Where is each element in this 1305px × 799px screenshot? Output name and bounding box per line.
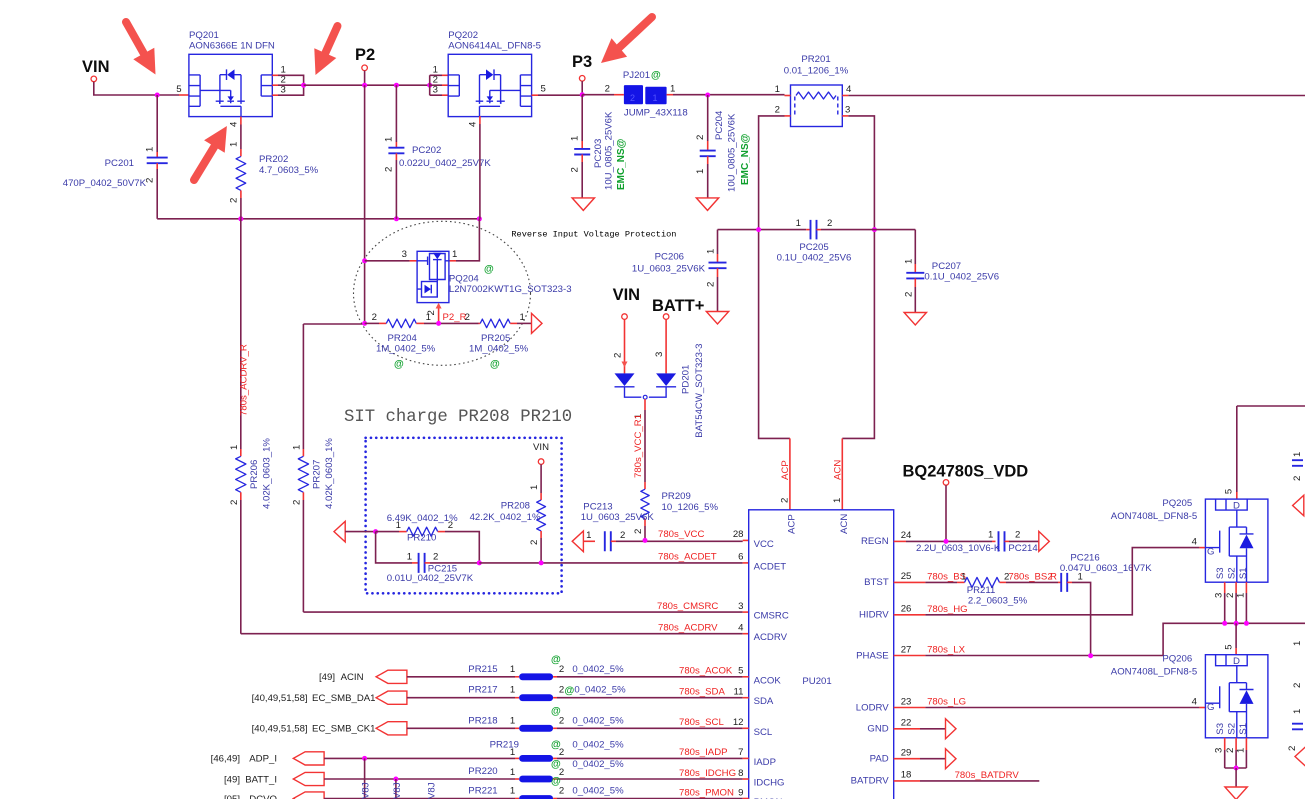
transistor PQ202 body [448, 54, 531, 116]
svg-text:2: 2 [145, 178, 156, 183]
svg-text:@: @ [551, 706, 561, 717]
svg-text:VIN: VIN [82, 58, 110, 76]
svg-text:1: 1 [1292, 452, 1303, 457]
svg-text:S1: S1 [1238, 567, 1249, 579]
svg-text:1M_0402_5%: 1M_0402_5% [469, 344, 529, 355]
svg-text:PC216: PC216 [1070, 553, 1099, 564]
svg-text:1: 1 [510, 747, 515, 758]
svg-text:[49]: [49] [224, 774, 240, 785]
svg-text:VIN: VIN [613, 286, 641, 304]
svg-text:4: 4 [846, 84, 852, 95]
svg-text:1: 1 [1235, 748, 1246, 753]
svg-text:2: 2 [620, 530, 625, 541]
svg-text:PC207: PC207 [932, 261, 961, 272]
wire BTST row [894, 581, 926, 583]
svg-text:2: 2 [633, 529, 644, 534]
svg-text:28: 28 [733, 529, 744, 540]
resistor PR205 [479, 322, 481, 324]
svg-text:SIT charge PR208 PR210: SIT charge PR208 PR210 [344, 408, 572, 427]
svg-text:PR206: PR206 [249, 460, 260, 489]
pin stubs PQ205 sources [1224, 582, 1226, 593]
node P2 terminal [362, 65, 368, 71]
resistor PR217 row [376, 691, 407, 704]
capacitor PC205 [811, 220, 817, 240]
svg-text:S2: S2 [1226, 723, 1237, 735]
junction PHASE PC216 [1088, 653, 1093, 658]
wire ACDRV_R vertical [240, 219, 242, 449]
svg-text:PC213: PC213 [583, 502, 612, 513]
ground arrow PAD pin [894, 758, 920, 760]
svg-text:2: 2 [827, 218, 832, 229]
svg-text:S2: S2 [1226, 567, 1237, 579]
svg-text:ACOK: ACOK [754, 675, 782, 686]
svg-text:IADP: IADP [754, 757, 776, 768]
pin stubs PQ206 sources [1224, 738, 1226, 750]
svg-text:D: D [1233, 656, 1240, 667]
wire HIDRV row [894, 614, 926, 616]
svg-text:VCC: VCC [754, 539, 774, 550]
junction BATT_I [393, 777, 398, 782]
svg-text:26: 26 [901, 604, 912, 615]
svg-text:780s_PMON: 780s_PMON [679, 787, 734, 798]
svg-text:2: 2 [559, 715, 564, 726]
svg-text:PR218: PR218 [468, 715, 497, 726]
svg-text:2: 2 [1292, 683, 1303, 688]
svg-text:PQ201: PQ201 [189, 30, 219, 41]
jumper PJ201 body [624, 85, 643, 104]
svg-text:PR210: PR210 [407, 533, 436, 544]
svg-text:REGN: REGN [861, 536, 889, 547]
offpage arrow REGN [1039, 531, 1050, 551]
svg-text:D: D [1233, 501, 1240, 512]
svg-text:22: 22 [901, 718, 912, 729]
annotation arrow 4 [619, 17, 652, 48]
svg-text:AON6414AL_DFN8-5: AON6414AL_DFN8-5 [448, 41, 541, 52]
svg-text:PR202: PR202 [259, 154, 288, 165]
svg-text:1: 1 [426, 312, 431, 323]
svg-text:4: 4 [1192, 697, 1198, 708]
svg-text:1: 1 [510, 685, 515, 696]
junction gate bus PR202 [238, 216, 243, 221]
svg-text:1: 1 [510, 664, 515, 675]
junction PR210 left [373, 529, 378, 534]
svg-text:1: 1 [291, 445, 302, 450]
svg-text:@: @ [551, 759, 561, 770]
svg-text:0.01_1206_1%: 0.01_1206_1% [784, 66, 849, 77]
svg-text:PR207: PR207 [311, 460, 322, 489]
svg-text:@: @ [551, 739, 561, 750]
svg-text:780s_CMSRC: 780s_CMSRC [657, 601, 718, 612]
svg-text:VIN: VIN [533, 442, 549, 453]
svg-text:5: 5 [176, 84, 181, 95]
resistor PR202 [240, 125, 242, 150]
junction sources b [1234, 621, 1239, 626]
svg-text:ACIN: ACIN [341, 672, 364, 683]
svg-text:780s_BS2: 780s_BS2 [1008, 571, 1052, 582]
svg-text:2: 2 [559, 786, 564, 797]
svg-text:1: 1 [695, 169, 706, 174]
svg-text:S1: S1 [1238, 723, 1249, 735]
capacitor PC213 [583, 540, 595, 542]
svg-text:[46,49]: [46,49] [211, 754, 240, 765]
svg-text:PC204: PC204 [714, 110, 725, 140]
wire arrow to PR210 [345, 531, 375, 533]
svg-text:LODRV: LODRV [856, 702, 889, 713]
svg-text:ACP: ACP [787, 514, 798, 534]
svg-text:4: 4 [1192, 537, 1198, 548]
wire net P2 segment [304, 84, 430, 86]
svg-text:BAT54CW_SOT323-3: BAT54CW_SOT323-3 [694, 343, 705, 437]
resistor PR210 [376, 531, 399, 533]
svg-text:4: 4 [738, 623, 744, 634]
svg-text:4: 4 [468, 121, 479, 127]
svg-text:6: 6 [738, 552, 743, 563]
junction ACN row [872, 227, 877, 232]
svg-text:10U_0805_25V6K: 10U_0805_25V6K [604, 111, 615, 190]
annotation arrow 1 [126, 22, 144, 54]
svg-text:PC202: PC202 [412, 145, 441, 156]
svg-text:0_0402_5%: 0_0402_5% [572, 739, 624, 750]
wire P3 to PJ201 [582, 94, 614, 96]
svg-text:780s_VCC: 780s_VCC [658, 529, 704, 540]
svg-text:2: 2 [384, 167, 395, 172]
svg-text:DCVO: DCVO [249, 794, 277, 799]
svg-text:@: @ [651, 70, 661, 81]
svg-text:6.49K_0402_1%: 6.49K_0402_1% [387, 513, 458, 524]
wire PQ204 pin1 [456, 219, 479, 261]
wire P2 vertical [364, 85, 366, 323]
capacitor PC216 [1058, 581, 1061, 583]
junction PQ201 outputs [301, 83, 306, 88]
svg-text:780s_LX: 780s_LX [927, 645, 965, 656]
svg-text:3: 3 [845, 105, 850, 116]
junction sources a [1222, 621, 1227, 626]
resistor PR220 row [293, 772, 324, 785]
svg-text:PQ206: PQ206 [1162, 654, 1192, 665]
svg-text:AON7408L_DFN8-5: AON7408L_DFN8-5 [1111, 667, 1197, 678]
input arrow PR210row [334, 521, 345, 542]
svg-text:5: 5 [738, 666, 743, 677]
dotted box [366, 438, 562, 594]
svg-text:2.2_0603_5%: 2.2_0603_5% [968, 596, 1028, 607]
svg-text:PAD: PAD [870, 754, 889, 765]
pin stub ACN [841, 438, 843, 509]
svg-text:PC203: PC203 [593, 139, 604, 168]
wire CMSRC row [303, 611, 742, 613]
svg-text:9: 9 [738, 787, 743, 798]
svg-text:29: 29 [901, 748, 912, 759]
svg-text:ACDET: ACDET [754, 561, 787, 572]
svg-text:PR221: PR221 [468, 786, 497, 797]
svg-text:780s_VCC_R1: 780s_VCC_R1 [633, 414, 644, 478]
resistor PR218 row [376, 722, 407, 735]
input arrow PC213 [572, 531, 583, 552]
svg-text:2: 2 [372, 312, 377, 323]
ground PC206 [706, 312, 728, 325]
svg-text:780s_SCL: 780s_SCL [679, 717, 724, 728]
annotation arrow 3 [194, 147, 214, 181]
junction PC202 top [394, 83, 399, 88]
svg-text:0_0402_5%: 0_0402_5% [572, 664, 624, 675]
svg-text:IDCHG: IDCHG [754, 778, 785, 789]
svg-text:2: 2 [630, 93, 635, 103]
svg-text:EC_SMB_CK1: EC_SMB_CK1 [312, 724, 375, 735]
svg-text:780s_LG: 780s_LG [927, 697, 966, 708]
svg-text:AON7408L_DFN8-5: AON7408L_DFN8-5 [1111, 511, 1197, 522]
svg-text:1: 1 [229, 445, 240, 450]
svg-text:Reverse Input Voltage Protecti: Reverse Input Voltage Protection [511, 230, 676, 240]
svg-text:3: 3 [1214, 748, 1225, 753]
svg-text:2: 2 [775, 105, 780, 116]
svg-text:42.2K_0402_1%: 42.2K_0402_1% [470, 512, 541, 523]
svg-text:4: 4 [229, 121, 240, 127]
ground PQ206 [1225, 787, 1247, 799]
svg-text:EMC_NS@: EMC_NS@ [740, 133, 751, 185]
wire PQ202 to P3 [538, 94, 582, 96]
svg-text:1U_0603_25V6K: 1U_0603_25V6K [581, 512, 655, 523]
svg-text:2: 2 [780, 498, 791, 503]
capacitor PC206 [717, 230, 719, 254]
svg-text:@: @ [490, 359, 500, 370]
wire ACN from PR201 pin3 [842, 116, 874, 439]
wire LODRV row [894, 707, 926, 709]
svg-text:780s_ACOK: 780s_ACOK [679, 666, 733, 677]
ground PC204 [696, 198, 718, 211]
svg-text:3: 3 [402, 249, 407, 260]
svg-text:PR208: PR208 [501, 501, 530, 512]
svg-text:1: 1 [796, 218, 801, 229]
svg-text:PQ205: PQ205 [1162, 498, 1192, 509]
svg-text:2: 2 [465, 312, 470, 323]
wire ACDET rail [479, 562, 742, 564]
wire PQ202 input loop [430, 75, 442, 95]
node P3 terminal [579, 76, 585, 82]
svg-text:PR204: PR204 [388, 333, 418, 344]
transistor PQ206 body [1205, 655, 1268, 738]
svg-text:0.047U_0603_16V7K: 0.047U_0603_16V7K [1060, 563, 1152, 574]
svg-text:ACP: ACP [780, 460, 791, 480]
svg-text:2: 2 [433, 552, 438, 563]
svg-text:PR215: PR215 [468, 664, 497, 675]
svg-text:1: 1 [570, 136, 581, 141]
resistor PR219 row [293, 752, 324, 765]
node VIN2 terminal [622, 314, 628, 320]
svg-text:2: 2 [529, 540, 540, 545]
svg-text:4.02K_0603_1%: 4.02K_0603_1% [324, 438, 335, 509]
svg-text:G: G [1207, 547, 1214, 558]
junction PQ206 gnd [1234, 766, 1239, 771]
junction PR208 bottom [539, 560, 544, 565]
svg-text:780s_IADP: 780s_IADP [679, 747, 728, 758]
svg-text:PC206: PC206 [655, 252, 684, 263]
transistor PQ201 body [189, 54, 272, 116]
wire BATDRV row [894, 780, 920, 782]
svg-text:2: 2 [559, 685, 564, 696]
svg-text:5: 5 [1224, 644, 1235, 649]
svg-text:1: 1 [520, 312, 525, 323]
svg-text:1: 1 [670, 84, 675, 95]
svg-text:4.7_0603_5%: 4.7_0603_5% [259, 165, 319, 176]
ground PC207 [904, 313, 926, 326]
svg-text:1: 1 [586, 530, 591, 541]
svg-text:P3: P3 [572, 53, 592, 71]
wire REGN row [894, 540, 906, 542]
svg-text:ACN: ACN [833, 460, 844, 480]
svg-text:EMC_NS@: EMC_NS@ [616, 138, 627, 190]
capacitor PC215 [419, 553, 425, 573]
svg-text:2: 2 [1015, 530, 1020, 541]
svg-text:1: 1 [904, 259, 915, 264]
svg-text:ACN: ACN [839, 514, 850, 534]
svg-text:HIDRV: HIDRV [859, 610, 889, 621]
wire VCC_R1 vertical [644, 399, 646, 410]
svg-text:1: 1 [653, 93, 658, 103]
svg-text:BTST: BTST [864, 577, 889, 588]
svg-text:2: 2 [612, 353, 623, 358]
capacitor PC207 [914, 230, 916, 264]
svg-text:1: 1 [229, 142, 240, 147]
junction sources c [1244, 621, 1249, 626]
svg-text:GND: GND [867, 724, 888, 735]
svg-text:V8J: V8J [392, 782, 403, 799]
svg-text:PR205: PR205 [481, 333, 510, 344]
svg-text:P2: P2 [355, 46, 375, 64]
svg-text:2.2U_0603_10V6-K: 2.2U_0603_10V6-K [916, 543, 1001, 554]
svg-text:1: 1 [832, 498, 843, 503]
svg-text:@: @ [484, 264, 494, 275]
svg-text:PHASE: PHASE [856, 650, 889, 661]
svg-text:L2N7002KWT1G_SOT323-3: L2N7002KWT1G_SOT323-3 [449, 284, 572, 295]
resistor PR208 [540, 464, 542, 493]
wire PQ201 output loop [278, 75, 304, 95]
svg-text:7: 7 [738, 747, 743, 758]
wire PR201 pin4 to right edge [848, 95, 1305, 97]
svg-text:[40,49,51,58]: [40,49,51,58] [252, 693, 308, 704]
wire VIN2 to diode [624, 319, 626, 373]
capacitor PC204 [707, 95, 709, 141]
junction ADP_I [362, 756, 367, 761]
svg-text:0_0402_5%: 0_0402_5% [572, 786, 624, 797]
pin stub PQ202 pin5 [532, 94, 538, 96]
svg-text:780s_IDCHG: 780s_IDCHG [679, 768, 736, 779]
net arrow P2_R pin2 [438, 307, 440, 323]
svg-text:18: 18 [901, 770, 912, 781]
svg-text:@: @ [565, 686, 575, 697]
svg-text:P2_R: P2_R [443, 312, 467, 323]
svg-text:PD201: PD201 [681, 365, 692, 394]
capacitor PC202 [395, 85, 397, 142]
svg-text:0_0402_5%: 0_0402_5% [572, 759, 624, 770]
resistor PR221 row [293, 792, 324, 799]
junction P2 [362, 83, 367, 88]
svg-text:780s_ACDRV_R: 780s_ACDRV_R [239, 344, 250, 416]
svg-text:G: G [1207, 702, 1214, 713]
svg-text:BATT_I: BATT_I [245, 774, 277, 785]
svg-text:S3: S3 [1215, 567, 1226, 579]
diode PD201b [656, 373, 676, 386]
svg-text:S3: S3 [1215, 723, 1226, 735]
junction P3 [580, 92, 585, 97]
svg-text:4.02K_0603_1%: 4.02K_0603_1% [262, 438, 273, 509]
svg-text:JUMP_43X118: JUMP_43X118 [624, 108, 688, 119]
svg-text:PQ204: PQ204 [449, 274, 480, 285]
wire gate bus [157, 218, 479, 220]
svg-text:PR220: PR220 [468, 766, 497, 777]
svg-text:2: 2 [229, 500, 240, 505]
junction at VIN/PC201 [155, 93, 160, 98]
pin stubs PQ202 pins 1 2 3 [442, 74, 448, 76]
junction PQ202 inputs [427, 83, 432, 88]
resistor PR209 [644, 482, 646, 489]
transistor PQ204 body [417, 251, 449, 302]
svg-text:SCL: SCL [754, 727, 773, 738]
wire to ground [1235, 768, 1237, 787]
svg-text:PR201: PR201 [801, 54, 830, 65]
svg-text:@: @ [551, 654, 561, 665]
wire cap row [718, 229, 807, 231]
resistor PR215 row [376, 670, 407, 683]
node BATT+ terminal [663, 314, 669, 320]
svg-text:BATT+: BATT+ [652, 297, 704, 315]
resistor PR206 [240, 449, 242, 456]
svg-text:2: 2 [559, 664, 564, 675]
svg-text:10_1206_5%: 10_1206_5% [662, 502, 719, 513]
svg-text:BQ24780S_VDD: BQ24780S_VDD [903, 463, 1029, 481]
svg-text:25: 25 [901, 571, 912, 582]
svg-text:0_0402_5%: 0_0402_5% [574, 685, 626, 696]
svg-text:24: 24 [901, 530, 912, 541]
svg-text:2: 2 [291, 500, 302, 505]
wire BATT+ to diode [665, 319, 667, 373]
junction gate bus PQ202pin4 [477, 216, 482, 221]
pin stubs PR201 [785, 95, 791, 97]
svg-text:1: 1 [145, 147, 156, 152]
svg-text:2: 2 [904, 292, 915, 297]
wire VIN to PQ201 pin5 [94, 82, 179, 95]
resistor PR211 [965, 577, 1000, 587]
svg-text:12: 12 [733, 717, 744, 728]
diode PD201a [615, 373, 635, 386]
junction REGN [944, 539, 949, 544]
capacitor PC214 [999, 531, 1005, 551]
wire PC215 row [376, 532, 412, 563]
svg-text:1M_0402_5%: 1M_0402_5% [376, 344, 436, 355]
svg-text:8: 8 [738, 768, 743, 779]
wire PQ204 pin3 [365, 260, 410, 262]
svg-text:1: 1 [510, 786, 515, 797]
svg-text:[49]: [49] [319, 672, 335, 683]
svg-text:V8J: V8J [427, 782, 438, 799]
svg-text:BATDRV: BATDRV [851, 776, 890, 787]
svg-text:1: 1 [988, 530, 993, 541]
svg-text:0_0402_5%: 0_0402_5% [572, 715, 624, 726]
svg-text:PC205: PC205 [799, 242, 828, 253]
junction gate bus PC202 [394, 216, 399, 221]
junction P2_R left [362, 321, 367, 326]
resistor PR207 [298, 456, 308, 492]
svg-text:PR217: PR217 [468, 685, 497, 696]
wire ACDRV row [241, 633, 743, 635]
svg-text:ADP_I: ADP_I [249, 754, 277, 765]
svg-text:1: 1 [529, 485, 540, 490]
junction ACP row [756, 227, 761, 232]
svg-text:780s_SDA: 780s_SDA [679, 687, 725, 698]
wire ACP from PR201 pin2 [759, 116, 790, 439]
svg-text:CMSRC: CMSRC [754, 611, 789, 622]
svg-text:780s_BATDRV: 780s_BATDRV [955, 770, 1020, 781]
junction PC215 right [477, 560, 482, 565]
svg-text:2: 2 [605, 84, 610, 95]
